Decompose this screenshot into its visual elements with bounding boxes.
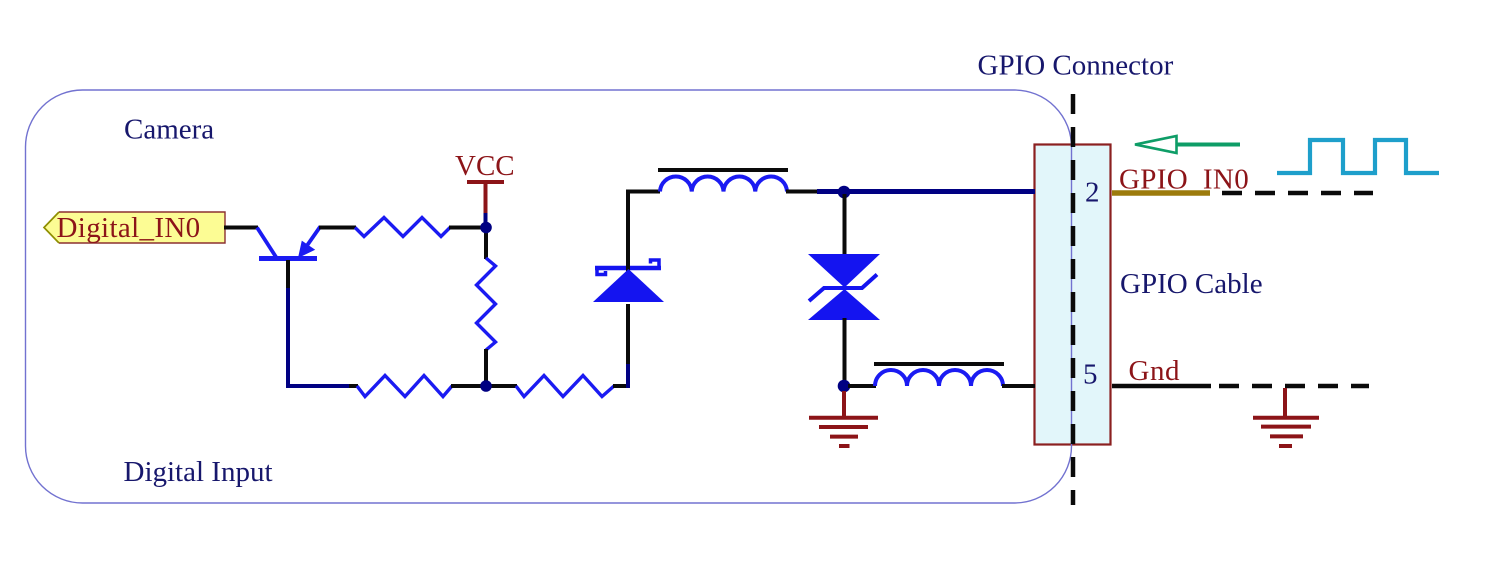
dashed wire pin 5 [1219, 384, 1369, 389]
dashed connector boundary line [1071, 94, 1076, 505]
wire junction to connector pin 2 (navy) [817, 189, 1035, 194]
zener diode D1 bar [595, 266, 661, 271]
wire corner up (navy piece) [626, 362, 630, 388]
resistor R4 [516, 376, 614, 397]
svg-text:Digital Input: Digital Input [124, 456, 273, 488]
wire L1 to junction [786, 190, 819, 194]
wire node to L2 [848, 384, 876, 388]
transistor Q1 collector diagonal [257, 228, 276, 258]
transistor Q1 base stub [286, 260, 290, 290]
wire pin 2 net (olive) [1112, 190, 1210, 196]
wire base down (navy) [286, 288, 290, 388]
wire emitter to R1 [319, 226, 356, 230]
port tag border top/right/bottom [59, 212, 225, 243]
ground symbol right (earth) [1253, 388, 1319, 446]
camera boundary rounded rectangle [26, 90, 1072, 503]
zener diode D1 triangle [593, 269, 664, 302]
wire junction down to TVS [843, 194, 847, 256]
svg-text:2: 2 [1085, 177, 1100, 209]
connector body (GPIO connector box) [1035, 145, 1111, 445]
power port VCC stem [484, 182, 488, 214]
node bottom resistor junction [480, 380, 492, 392]
wire TVS down to bottom node [843, 318, 847, 388]
transistor Q1 base bar [259, 256, 317, 261]
wire VCC stub (navy) [484, 213, 488, 224]
wire corner to zener [626, 304, 630, 364]
svg-text:VCC: VCC [455, 150, 515, 182]
green direction arrow tail [1178, 143, 1241, 147]
dashed wire pin 2 [1222, 191, 1373, 196]
zener diode D1 left hook [597, 270, 606, 275]
wire R3 to node [451, 384, 483, 388]
wire node to R4 [489, 384, 517, 388]
wire L2 to connector pin 5 [1002, 384, 1035, 388]
TVS diode D2 bottom triangle [808, 289, 880, 320]
resistor R2 (vertical) [477, 258, 496, 350]
svg-text:GPIO Cable: GPIO Cable [1120, 268, 1263, 300]
wire R1 to VCC node [449, 226, 483, 230]
svg-text:Gnd: Gnd [1129, 355, 1180, 387]
wire R4 to corner [613, 384, 630, 388]
wire pin 5 out [1112, 384, 1211, 389]
power port VCC bar [467, 180, 504, 184]
transistor Q1 emitter arrowhead [298, 241, 315, 258]
port Digital_IN0 tag [44, 212, 225, 243]
port tag chevron [44, 212, 59, 243]
inductor L2 shield bar [874, 362, 1004, 366]
wire node to R2 [484, 227, 488, 259]
transistor Q1 emitter diagonal [306, 227, 320, 248]
svg-text:Camera: Camera [124, 114, 214, 146]
node top junction [838, 186, 851, 199]
TVS diode D2 top triangle [808, 254, 880, 288]
green direction arrow head [1135, 136, 1177, 153]
resistor R3 [357, 376, 452, 397]
resistor R1 [355, 218, 450, 237]
node bottom junction [838, 380, 851, 393]
wire bottom left (navy) [286, 384, 351, 388]
waveform square wave [1277, 140, 1439, 173]
node R1/VCC [480, 222, 492, 234]
wire tag to transistor [224, 226, 258, 230]
inductor L1 coils [660, 176, 787, 191]
wire zener up to top rail [628, 192, 660, 274]
svg-text:5: 5 [1083, 359, 1098, 391]
inductor L2 coils [875, 370, 1003, 386]
wire stub to R3 [349, 384, 358, 388]
ground symbol under TVS [809, 391, 878, 446]
wire R2 to bottom node [484, 349, 488, 386]
zener diode D1 right hook [651, 260, 660, 266]
svg-text:GPIO Connector: GPIO Connector [978, 50, 1174, 82]
TVS diode D2 slash [809, 275, 877, 302]
svg-text:Digital_IN0: Digital_IN0 [57, 212, 201, 244]
inductor L1 shield bar [658, 168, 788, 172]
